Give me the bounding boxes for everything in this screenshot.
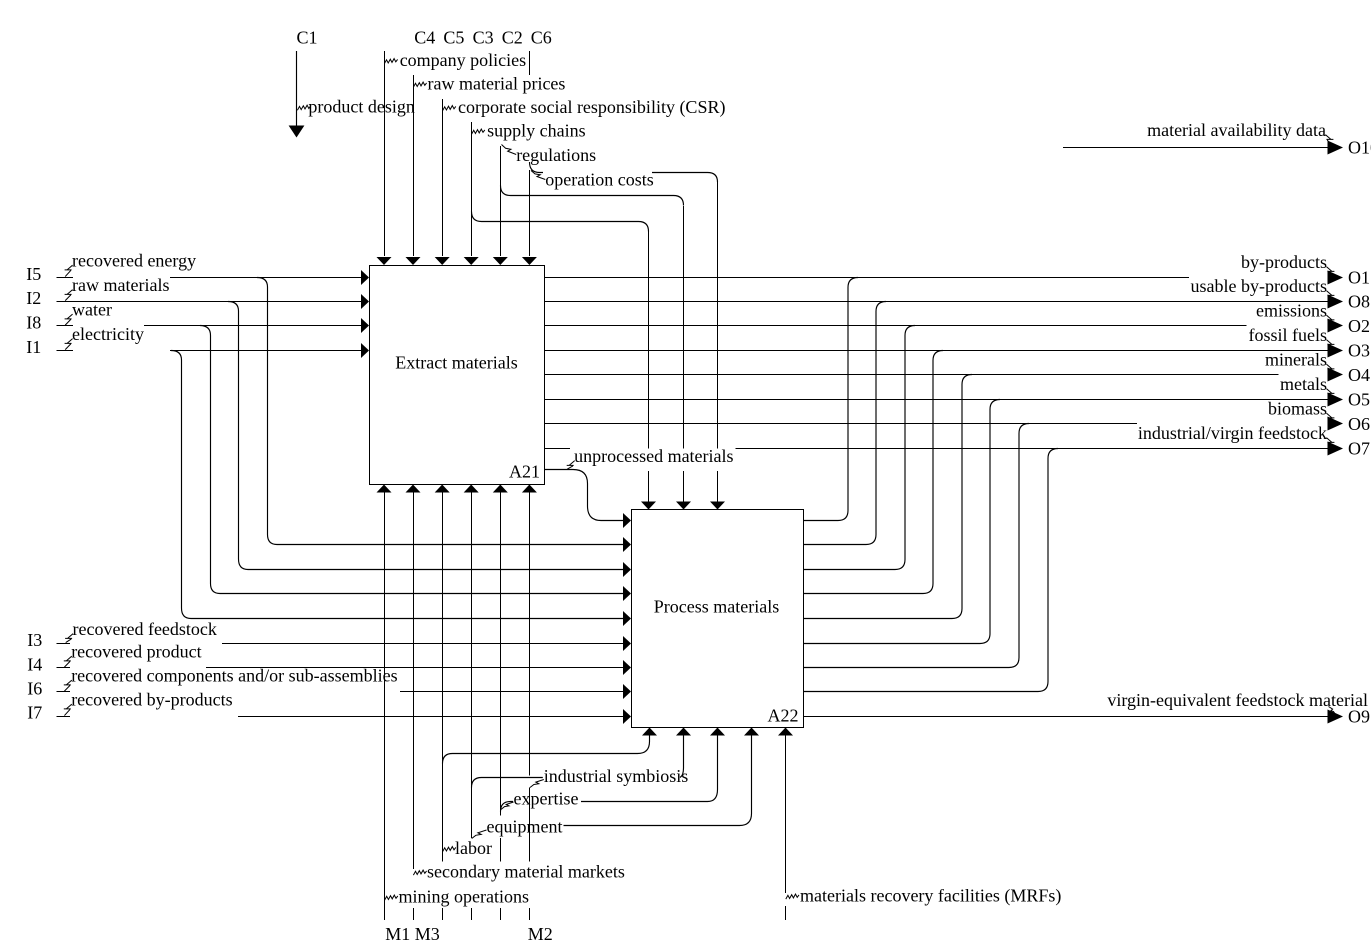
- label biomass: [1268, 399, 1327, 419]
- arrowhead mechanism into A21 bottom #6: [522, 485, 537, 493]
- squiggle recovered feedstock: [65, 634, 73, 643]
- box A22 Process materials: [632, 510, 804, 728]
- wire mechanism M2 industrial symbiosis vertical: [529, 493, 531, 921]
- arrowhead C1: [289, 126, 305, 138]
- wire input I7 recovered by-products: [57, 716, 624, 718]
- svg-text:C1: C1: [297, 28, 318, 48]
- arrowhead control into A21 top #2: [406, 257, 421, 265]
- label regulations: [516, 145, 596, 165]
- label raw materials: [72, 275, 169, 295]
- squiggle materials recovery facilities: [786, 894, 799, 899]
- wire output O3 fossil fuels: [545, 350, 1329, 352]
- wire output O4 minerals: [545, 374, 1279, 376]
- label industrial symbiosis: [544, 766, 689, 786]
- label code C2: [502, 28, 523, 48]
- wire input I5 recovered energy: [57, 277, 362, 279]
- wire input I1 electricity: [57, 350, 362, 352]
- wire I2 branch to A22: [228, 302, 624, 570]
- svg-text:I1: I1: [26, 337, 41, 357]
- arrowhead I7 into A22: [623, 709, 631, 724]
- svg-text:company policies: company policies: [400, 50, 526, 70]
- arrowhead O1 by-products: [1328, 271, 1344, 285]
- wire A22 output riser #3 joining O2 emissions: [804, 326, 916, 570]
- wire control C5 raw material prices vertical: [413, 75, 415, 256]
- svg-text:by-products: by-products: [1241, 252, 1327, 272]
- squiggle electricity: [65, 339, 73, 350]
- svg-text:expertise: expertise: [514, 789, 579, 809]
- wire A22 output riser #6 joining O5 metals: [804, 400, 1001, 644]
- label by-products: [1241, 252, 1327, 272]
- wire input I2 raw materials: [57, 301, 362, 303]
- svg-text:raw materials: raw materials: [72, 275, 169, 295]
- wire control C2 regulations vertical: [500, 146, 502, 256]
- wire I8 branch to A22: [200, 326, 624, 594]
- label labor: [455, 838, 492, 858]
- svg-text:product design: product design: [308, 97, 414, 117]
- svg-text:C5: C5: [443, 28, 464, 48]
- wire control corporate social responsibility vertical: [442, 99, 444, 256]
- squiggle emissions: [1326, 315, 1334, 325]
- wire unprocessed materials A21 to A22: [545, 470, 624, 521]
- svg-text:A22: A22: [768, 706, 799, 726]
- label code O4: [1348, 365, 1370, 385]
- wire A22 output riser #8 joining O7 industrial/virgin feedstock: [804, 449, 1059, 692]
- label industrial/virgin feedstock: [1138, 423, 1327, 443]
- label raw material prices: [428, 74, 566, 94]
- arrowhead unprocessed materials into A22: [623, 513, 631, 528]
- label code O5: [1348, 390, 1370, 410]
- label code I8: [26, 313, 41, 333]
- squiggle operation costs: [531, 171, 545, 180]
- arrowhead O6 biomass: [1328, 417, 1344, 431]
- wire expertise branch to A22: [501, 736, 718, 812]
- arrowhead I6 into A22: [623, 684, 631, 699]
- label code A22: [768, 706, 799, 726]
- wire mechanism M3 secondary material markets vertical: [413, 493, 415, 921]
- label company policies: [400, 50, 526, 70]
- label fossil fuels: [1249, 325, 1328, 345]
- svg-text:corporate social responsibilit: corporate social responsibility (CSR): [458, 97, 725, 118]
- arrowhead control into A21 top #1: [377, 257, 392, 265]
- squiggle unprocessed materials: [567, 461, 575, 470]
- wire output O1 by-products: [545, 277, 1190, 279]
- squiggle recovered by-products: [64, 704, 72, 716]
- wire supply chains branch vertical: [648, 232, 650, 502]
- wire mechanism equipment vertical: [471, 493, 473, 921]
- arrowhead O9: [1328, 710, 1344, 724]
- arrowhead I1 into A21: [361, 343, 369, 358]
- wire A22 output riser #1 joining O1 by-products: [804, 278, 859, 521]
- wire A22 output riser #7 joining O6 biomass: [804, 424, 1030, 668]
- label code O10: [1348, 138, 1371, 158]
- label code C6: [531, 28, 552, 48]
- svg-text:emissions: emissions: [1256, 301, 1327, 321]
- svg-text:materials recovery facilities: materials recovery facilities (MRFs): [800, 886, 1061, 907]
- squiggle raw material prices: [413, 82, 426, 87]
- wire regulations branch vertical: [683, 206, 685, 502]
- svg-text:I7: I7: [27, 703, 42, 723]
- label code A21: [509, 462, 540, 482]
- label metals: [1280, 374, 1327, 394]
- arrowhead mechanism into A21 bottom #1: [377, 485, 392, 493]
- label recovered by-products: [71, 690, 232, 710]
- svg-text:regulations: regulations: [516, 145, 596, 165]
- svg-text:I4: I4: [27, 655, 42, 675]
- arrowhead I2 branch into A22: [623, 562, 631, 577]
- wire A22 output riser #4 joining O3 fossil fuels: [804, 351, 944, 594]
- label recovered product: [71, 642, 201, 662]
- svg-text:C3: C3: [473, 28, 494, 48]
- label minerals: [1265, 350, 1327, 370]
- svg-text:mining operations: mining operations: [399, 887, 529, 907]
- arrowhead O10: [1328, 141, 1344, 155]
- arrowhead mechanism into A21 bottom #5: [493, 485, 508, 493]
- wire input I4 recovered product: [57, 667, 624, 669]
- svg-text:Extract materials: Extract materials: [395, 353, 517, 373]
- wire output O5 metals: [545, 399, 1329, 401]
- arrowhead supply chains into A22 top: [641, 502, 656, 510]
- svg-text:industrial symbiosis: industrial symbiosis: [544, 766, 689, 786]
- label material availability data: [1147, 120, 1326, 140]
- label recovered components and/or sub-assemblies: [71, 666, 397, 686]
- label product design: [308, 97, 414, 117]
- svg-text:M1: M1: [385, 924, 410, 944]
- svg-text:O9: O9: [1348, 707, 1370, 727]
- arrowhead I8 branch into A22: [623, 586, 631, 601]
- squiggle industrial/virgin feedstock: [1326, 438, 1334, 448]
- svg-text:recovered energy: recovered energy: [72, 251, 196, 271]
- arrowhead regulations into A22 top: [676, 502, 691, 510]
- svg-text:I3: I3: [27, 630, 42, 650]
- wire operation costs branch to A22: [530, 162, 718, 182]
- label box A21: [395, 353, 517, 373]
- label code O9: [1348, 707, 1370, 727]
- svg-text:O5: O5: [1348, 390, 1370, 410]
- svg-text:I6: I6: [27, 679, 42, 699]
- svg-text:equipment: equipment: [487, 817, 563, 837]
- squiggle water: [65, 314, 73, 325]
- svg-text:A21: A21: [509, 462, 540, 482]
- squiggle recovered components and/or sub-assemblies: [64, 680, 72, 691]
- label code C5: [443, 28, 464, 48]
- svg-text:labor: labor: [455, 838, 492, 858]
- squiggle by-products: [1326, 267, 1334, 277]
- wire output O10 material availability data: [1063, 147, 1328, 149]
- arrowhead control into A21 top #4: [464, 257, 479, 265]
- arrowhead I5 branch into A22: [623, 537, 631, 552]
- label code C1: [297, 28, 318, 48]
- svg-text:minerals: minerals: [1265, 350, 1327, 370]
- label materials recovery facilities: [800, 886, 1061, 907]
- squiggle secondary material markets: [413, 870, 426, 875]
- wire mechanism M1 mining operations vertical: [384, 493, 386, 921]
- svg-text:industrial/virgin feedstock: industrial/virgin feedstock: [1138, 423, 1327, 443]
- wire A22 output riser #5 joining O4 minerals: [804, 375, 973, 619]
- label operation costs: [545, 170, 653, 190]
- wire output O6 biomass: [545, 423, 1138, 425]
- label code I2: [26, 288, 41, 308]
- label code M2: [528, 924, 553, 944]
- squiggle virgin-equivalent feedstock material: [1329, 707, 1336, 715]
- svg-text:unprocessed materials: unprocessed materials: [574, 446, 733, 466]
- svg-text:O10: O10: [1348, 138, 1371, 158]
- wire I1 branch to A22: [171, 351, 624, 619]
- arrowhead I5 into A21: [361, 270, 369, 285]
- arrowhead I8 into A21: [361, 318, 369, 333]
- arrowhead mechanism into A21 bottom #2: [406, 485, 421, 493]
- arrowhead operation costs into A22 top: [710, 502, 725, 510]
- label code M3: [415, 924, 440, 944]
- svg-text:secondary material markets: secondary material markets: [427, 862, 625, 882]
- svg-text:C2: C2: [502, 28, 523, 48]
- wire control C6 operation costs vertical: [529, 51, 531, 256]
- label code O8: [1348, 292, 1370, 312]
- svg-text:recovered components and/or su: recovered components and/or sub-assembli…: [71, 666, 397, 686]
- arrowhead labor into A22 bottom: [642, 728, 657, 736]
- squiggle minerals: [1326, 364, 1334, 374]
- label code O2: [1348, 316, 1370, 336]
- svg-text:I5: I5: [26, 264, 41, 284]
- label supply chains: [487, 121, 585, 141]
- label code O1: [1348, 268, 1370, 288]
- svg-text:metals: metals: [1280, 374, 1327, 394]
- svg-text:O2: O2: [1348, 316, 1370, 336]
- wire output O7 industrial/virgin feedstock: [545, 448, 1329, 450]
- label water: [72, 300, 112, 320]
- svg-text:material availability data: material availability data: [1147, 120, 1326, 140]
- arrowhead I2 into A21: [361, 294, 369, 309]
- label code C4: [414, 28, 435, 48]
- arrowhead industrial symbiosis into A22 bottom: [744, 728, 759, 736]
- wire mechanism materials recovery facilities vertical: [785, 736, 787, 921]
- wire operation costs branch vertical: [717, 182, 719, 502]
- squiggle mining operations: [385, 895, 398, 900]
- svg-text:I2: I2: [26, 288, 41, 308]
- squiggle raw materials: [65, 290, 73, 301]
- label code I6: [27, 679, 42, 699]
- wire control C1 vertical: [296, 51, 298, 126]
- arrowhead expertise into A22 bottom: [710, 728, 725, 736]
- arrowhead mechanism into A21 bottom #3: [435, 485, 450, 493]
- squiggle biomass: [1326, 413, 1334, 423]
- svg-text:water: water: [72, 300, 112, 320]
- arrowhead O5 metals: [1328, 393, 1344, 407]
- label code I4: [27, 655, 42, 675]
- wire input I6 recovered components: [57, 691, 624, 693]
- svg-text:operation costs: operation costs: [545, 170, 653, 190]
- svg-text:usable by-products: usable by-products: [1191, 276, 1327, 296]
- squiggle recovered energy: [65, 265, 73, 277]
- label code O7: [1348, 439, 1370, 459]
- arrowhead mechanism into A21 bottom #4: [464, 485, 479, 493]
- svg-text:O6: O6: [1348, 414, 1370, 434]
- squiggle company policies: [384, 59, 397, 64]
- label code O6: [1348, 414, 1370, 434]
- arrowhead I1 branch into A22: [623, 611, 631, 626]
- label code O3: [1348, 341, 1370, 361]
- svg-text:raw material prices: raw material prices: [428, 74, 566, 94]
- squiggle usable by-products: [1326, 291, 1334, 301]
- wire output O8 usable by-products: [545, 301, 1329, 303]
- svg-text:C6: C6: [531, 28, 552, 48]
- label code I5: [26, 264, 41, 284]
- label unprocessed materials: [574, 446, 733, 466]
- arrowhead O2 emissions: [1328, 319, 1344, 333]
- wire I5 branch to A22: [257, 278, 624, 545]
- label code I7: [27, 703, 42, 723]
- svg-text:M3: M3: [415, 924, 440, 944]
- arrowhead I4 into A22: [623, 660, 631, 675]
- svg-text:supply chains: supply chains: [487, 121, 585, 141]
- arrowhead control into A21 top #5: [493, 257, 508, 265]
- wire control C4 company policies vertical: [384, 51, 386, 256]
- label code C3: [473, 28, 494, 48]
- arrowhead equipment into A22 bottom: [676, 728, 691, 736]
- box A21 Extract materials: [370, 266, 545, 485]
- label code I3: [27, 630, 42, 650]
- svg-text:O3: O3: [1348, 341, 1370, 361]
- arrowhead O8 usable by-products: [1328, 295, 1344, 309]
- svg-text:O4: O4: [1348, 365, 1370, 385]
- wire control C3 supply chains vertical: [471, 122, 473, 256]
- squiggle material availability data: [1325, 135, 1333, 148]
- svg-text:fossil fuels: fossil fuels: [1249, 325, 1328, 345]
- label code I1: [26, 337, 41, 357]
- svg-text:recovered by-products: recovered by-products: [71, 690, 232, 710]
- svg-text:O7: O7: [1348, 439, 1370, 459]
- label expertise: [514, 789, 579, 809]
- label secondary material markets: [427, 862, 625, 882]
- squiggle equipment: [472, 830, 487, 839]
- squiggle labor: [443, 847, 456, 852]
- squiggle regulations: [502, 145, 517, 155]
- squiggle industrial symbiosis: [530, 780, 544, 788]
- wire labor branch to A22: [443, 736, 650, 764]
- wire output O9 virgin-equivalent feedstock material: [804, 716, 1329, 718]
- svg-text:recovered product: recovered product: [71, 642, 201, 662]
- arrowhead I3 into A22: [623, 636, 631, 651]
- wire A22 output riser #2 joining O8 usable by-products: [804, 302, 887, 545]
- wire industrial symbiosis branch to A22: [564, 736, 752, 826]
- wire equipment branch to A22: [472, 736, 684, 788]
- wire mechanism expertise vertical: [500, 493, 502, 921]
- label corporate social responsibility: [458, 97, 725, 118]
- label code M1: [385, 924, 410, 944]
- svg-text:I8: I8: [26, 313, 41, 333]
- label recovered energy: [72, 251, 196, 271]
- squiggle expertise: [501, 802, 514, 810]
- arrowhead O4 minerals: [1328, 368, 1344, 382]
- arrowhead O3 fossil fuels: [1328, 344, 1344, 358]
- svg-text:O1: O1: [1348, 268, 1370, 288]
- svg-text:biomass: biomass: [1268, 399, 1327, 419]
- svg-text:M2: M2: [528, 924, 553, 944]
- wire supply chains branch to A22: [472, 212, 649, 232]
- svg-text:recovered feedstock: recovered feedstock: [73, 619, 217, 639]
- label box A22: [654, 597, 779, 617]
- label emissions: [1256, 301, 1327, 321]
- arrowhead O7 industrial/virgin feedstock: [1328, 442, 1344, 456]
- label virgin-equivalent feedstock material: [1107, 690, 1368, 710]
- squiggle recovered product: [64, 656, 72, 667]
- wire input I3 recovered feedstock: [57, 643, 624, 645]
- label mining operations: [399, 887, 529, 907]
- label equipment: [487, 817, 563, 837]
- label usable by-products: [1191, 276, 1327, 296]
- svg-text:O8: O8: [1348, 292, 1370, 312]
- squiggle corporate social responsibility: [443, 106, 456, 111]
- squiggle product design: [297, 105, 310, 110]
- squiggle supply chains: [472, 129, 485, 134]
- arrowhead MRFs into A22 bottom: [778, 728, 793, 736]
- label electricity: [72, 324, 144, 344]
- squiggle fossil fuels: [1326, 340, 1334, 350]
- svg-text:Process materials: Process materials: [654, 597, 779, 617]
- squiggle metals: [1326, 389, 1334, 399]
- label recovered feedstock: [73, 619, 217, 639]
- wire input I8 water: [57, 325, 362, 327]
- svg-text:C4: C4: [414, 28, 435, 48]
- wire mechanism labor vertical: [442, 493, 444, 921]
- arrowhead control into A21 top #3: [435, 257, 450, 265]
- wire regulations branch to A22: [501, 186, 684, 206]
- wire output O2 emissions: [545, 325, 1247, 327]
- svg-text:electricity: electricity: [72, 324, 144, 344]
- arrowhead control into A21 top #6: [522, 257, 537, 265]
